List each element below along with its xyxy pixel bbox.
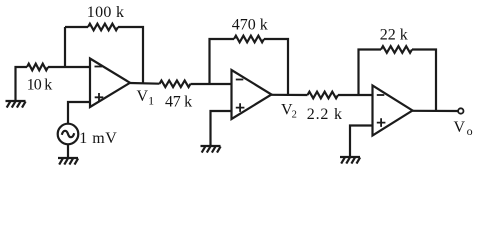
svg-text:470 k: 470 k <box>232 17 268 34</box>
svg-text:1 mV: 1 mV <box>79 130 117 147</box>
svg-text:10 k: 10 k <box>27 76 53 93</box>
svg-text:47 k: 47 k <box>165 94 192 111</box>
svg-text:2.2 k: 2.2 k <box>307 106 343 123</box>
svg-text:100 k: 100 k <box>87 4 125 21</box>
svg-text:22 k: 22 k <box>380 27 408 44</box>
